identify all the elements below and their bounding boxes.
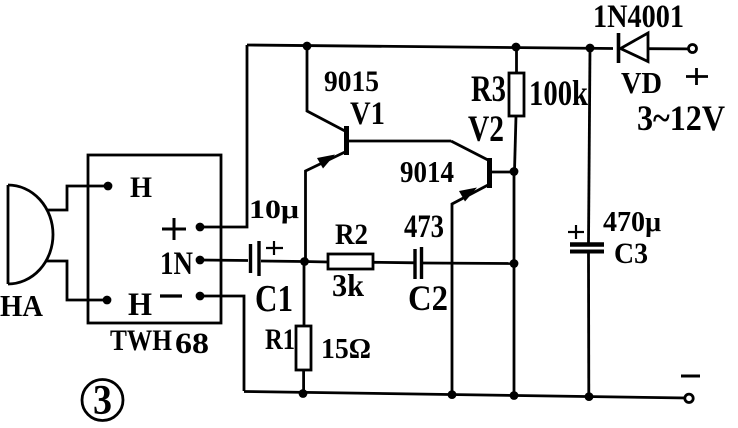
svg-text:R2: R2	[335, 218, 368, 251]
pin + right	[196, 223, 205, 232]
IC U1 TWH68 box	[88, 155, 221, 323]
svg-text:H: H	[128, 287, 152, 323]
svg-text:C2: C2	[408, 278, 448, 318]
wire speaker bottom to H pin	[46, 261, 107, 300]
svg-text:1N4001: 1N4001	[593, 0, 684, 35]
wire bottom rail	[244, 392, 687, 399]
terminal + supply	[689, 45, 697, 53]
wire speaker top to H pin	[47, 186, 108, 210]
svg-text:68: 68	[175, 327, 209, 360]
capacitor C3 470u	[568, 48, 604, 397]
wire base line down to bottom rail	[513, 171, 516, 396]
node top rail / C3	[586, 44, 595, 53]
pin 1N right	[196, 256, 205, 265]
node V2 base / R3	[510, 167, 519, 176]
node C2 / base line	[510, 259, 519, 268]
svg-text:C1: C1	[255, 278, 293, 320]
svg-text:3~12V: 3~12V	[637, 98, 725, 138]
node bottom rail / C3	[585, 392, 594, 401]
node top rail / V1 collector	[303, 42, 312, 51]
svg-text:VD: VD	[621, 65, 662, 100]
svg-text:3: 3	[93, 378, 112, 424]
terminal - supply	[685, 394, 693, 402]
wire H- pin down to bottom rail	[200, 296, 244, 391]
node bottom rail / V2 emitter	[448, 390, 457, 399]
capacitor C1	[200, 241, 303, 276]
diode VD 1N4001	[619, 33, 689, 63]
pin H top-left	[104, 182, 113, 191]
svg-text:1N: 1N	[160, 246, 193, 282]
svg-text:V2: V2	[468, 109, 504, 150]
resistor R3 100k	[509, 47, 524, 171]
node bottom rail / base line	[510, 391, 519, 400]
transistor V2 9014	[451, 141, 514, 395]
svg-text:9014: 9014	[400, 154, 454, 189]
wire + pin up to top rail	[200, 45, 247, 227]
svg-text:TWH: TWH	[110, 324, 172, 357]
figure number 3	[82, 378, 123, 424]
wire top rail	[247, 45, 613, 49]
speaker HA	[8, 185, 53, 284]
resistor R2 3k	[304, 254, 415, 269]
svg-text:HA: HA	[0, 288, 44, 323]
svg-text:H: H	[130, 171, 152, 204]
resistor R1 15ohm	[296, 262, 311, 394]
pin H- bottom	[103, 296, 112, 305]
node bottom rail / R1	[299, 389, 308, 398]
svg-text:V1: V1	[350, 96, 385, 132]
node top rail / R3	[512, 43, 521, 52]
svg-text:9015: 9015	[324, 65, 379, 98]
svg-text:15Ω: 15Ω	[321, 333, 371, 365]
node junction C1/R2/R1/V1e	[300, 257, 309, 266]
svg-text:C3: C3	[614, 237, 648, 270]
svg-text:10μ: 10μ	[249, 195, 299, 224]
svg-text:R3: R3	[471, 69, 506, 110]
svg-text:R1: R1	[265, 323, 295, 356]
capacitor C2	[415, 247, 514, 279]
svg-text:100k: 100k	[529, 73, 588, 113]
svg-text:473: 473	[404, 209, 444, 245]
svg-text:470μ: 470μ	[603, 206, 662, 238]
transistor V1 9015	[306, 46, 452, 261]
svg-text:3k: 3k	[332, 267, 364, 303]
